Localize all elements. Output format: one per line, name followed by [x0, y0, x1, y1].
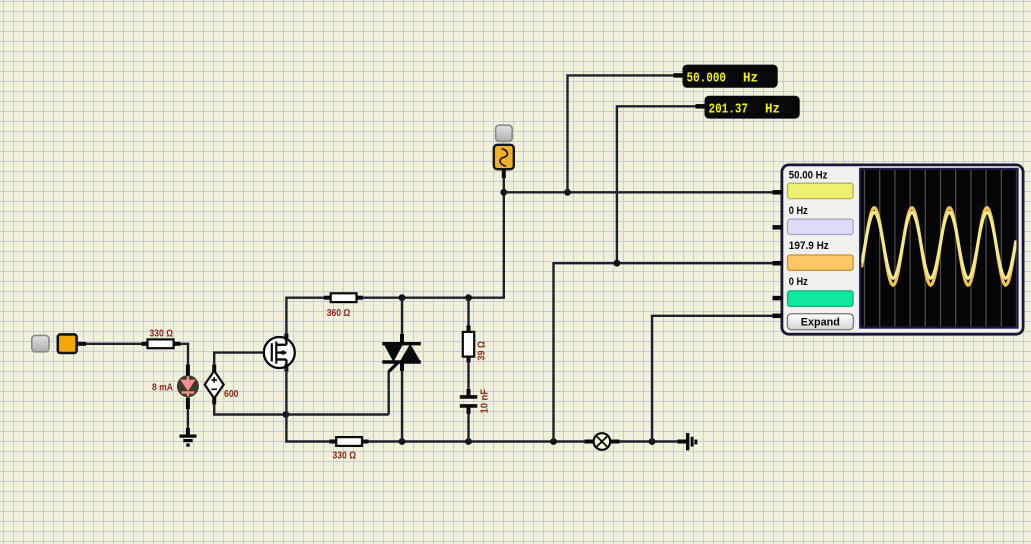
wire gate rail to triac gate	[286, 413, 389, 415]
wire C1 to bottom rail	[467, 413, 469, 442]
wire scope gnd drop	[652, 316, 773, 442]
svg-text:Hz: Hz	[765, 103, 780, 118]
svg-text:Hz: Hz	[743, 72, 758, 87]
wire J1 to R1	[86, 343, 143, 345]
svg-text:10 nF: 10 nF	[480, 389, 491, 414]
junction ch3 / freq2	[614, 260, 621, 267]
junction bottom rail / snubber	[465, 438, 472, 445]
svg-text:330 Ω: 330 Ω	[333, 451, 357, 462]
scope pin ch1	[773, 190, 784, 195]
junction bottom rail / triac cathode	[399, 438, 406, 445]
label D1 current 8 mA	[152, 383, 173, 394]
wire T1 gate down	[388, 371, 390, 415]
dependent source B1 (diamond)	[205, 365, 224, 405]
connector socket J1 (orange)	[58, 334, 86, 353]
scope pin gnd	[773, 314, 784, 319]
scope label ch1 50.00 Hz	[789, 170, 828, 182]
ground GND1	[180, 428, 197, 445]
scope label ch4 0 Hz	[789, 276, 809, 288]
label R1 value 330 Ω	[149, 328, 173, 339]
wire R4 to C1	[467, 361, 469, 392]
svg-text:8 mA: 8 mA	[152, 383, 173, 394]
scope swatch ch2 (lavender)	[788, 219, 854, 234]
wire top rail R2 to V1 corner	[362, 192, 504, 297]
wire lamp to ground rail	[620, 440, 679, 442]
FM1 reading 50.000 Hz	[687, 72, 759, 87]
svg-text:0 Hz: 0 Hz	[789, 205, 809, 217]
wire freq2 tap to frequency meter FM2	[617, 106, 705, 263]
scope pin ch2	[773, 225, 784, 230]
svg-text:39 Ω: 39 Ω	[477, 341, 488, 361]
svg-text:201.37: 201.37	[709, 103, 749, 118]
junction ground rail / scope gnd drop	[649, 438, 656, 445]
label R4 value 39 Ω	[477, 341, 488, 361]
voltage source V1 button (grey)	[496, 125, 513, 141]
svg-text:360 Ω: 360 Ω	[327, 308, 351, 319]
wire D1 to ground	[187, 409, 189, 431]
FM2 reading 201.37 Hz	[709, 103, 781, 118]
svg-text:600: 600	[224, 389, 239, 400]
resistor R2	[324, 293, 363, 302]
svg-text:0 Hz: 0 Hz	[789, 276, 809, 288]
scope label ch2 0 Hz	[789, 205, 809, 217]
scope pin ch3	[773, 261, 784, 266]
wire R1 to LED D1	[180, 344, 188, 366]
wire bottom rail	[368, 440, 586, 442]
wire snubber top	[467, 298, 469, 328]
scope pin ch4	[773, 296, 784, 301]
voltage source V1 (sine)	[494, 145, 514, 178]
triac T1	[382, 298, 421, 372]
push button SW1 (grey)	[32, 335, 49, 351]
scope trace ch1 (yellow wave)	[862, 212, 1017, 278]
oscilloscope SCOPE1 panel	[782, 165, 1023, 334]
svg-text:Expand: Expand	[801, 317, 840, 329]
wire B1 bottom to gate-return rail	[214, 404, 286, 415]
scope screen grid lines	[865, 170, 1017, 327]
junction top rail / snubber	[465, 294, 472, 301]
wire V1 node to scope ch1	[504, 191, 773, 193]
label R3 value 330 Ω	[333, 451, 357, 462]
svg-text:197.9 Hz: 197.9 Hz	[789, 240, 830, 252]
scope Expand button	[787, 314, 853, 330]
resistor R3	[330, 437, 369, 446]
wire V1 to node	[503, 178, 505, 192]
scope swatch ch4 (green)	[788, 291, 854, 306]
lamp X1	[585, 433, 620, 450]
wire ch3 rail to scope	[554, 263, 774, 441]
wire tap to frequency meter FM1	[568, 75, 684, 192]
wire Q1 drain to top rail	[286, 298, 325, 335]
label C1 value 10 nF	[480, 389, 491, 414]
ground GND2 (right)	[678, 433, 696, 450]
label B1 gain 600	[224, 389, 239, 400]
wire B1 top to Q1 gate	[214, 353, 264, 366]
wire Q1 source down	[286, 368, 330, 442]
transistor Q1 (n-MOSFET)	[264, 334, 295, 372]
junction top rail / triac anode	[399, 294, 406, 301]
junction freq1 tap	[564, 189, 571, 196]
svg-text:50.000: 50.000	[687, 72, 727, 87]
scope trace ch3 (orange wave)	[862, 208, 1017, 285]
svg-text:330 Ω: 330 Ω	[149, 328, 173, 339]
wire T1 cathode to bottom rail	[401, 370, 403, 442]
scope screen	[860, 169, 1017, 328]
resistor R1	[142, 339, 181, 348]
frequency meter FM2	[705, 96, 800, 119]
label R2 value 360 Ω	[327, 308, 351, 319]
junction V1 node	[500, 189, 507, 196]
capacitor C1	[460, 389, 478, 414]
junction bottom rail / scope ch3 drop	[550, 438, 557, 445]
scope swatch ch3 (orange)	[788, 255, 854, 270]
svg-text:50.00 Hz: 50.00 Hz	[789, 170, 828, 182]
scope swatch ch1 (yellow)	[788, 183, 854, 198]
scope label ch3 197.9 Hz	[789, 240, 830, 252]
LED D1 (8 mA indicator)	[177, 365, 199, 410]
junction source/gate rail	[283, 411, 290, 418]
frequency meter FM1	[683, 65, 778, 88]
resistor R4	[463, 326, 474, 363]
